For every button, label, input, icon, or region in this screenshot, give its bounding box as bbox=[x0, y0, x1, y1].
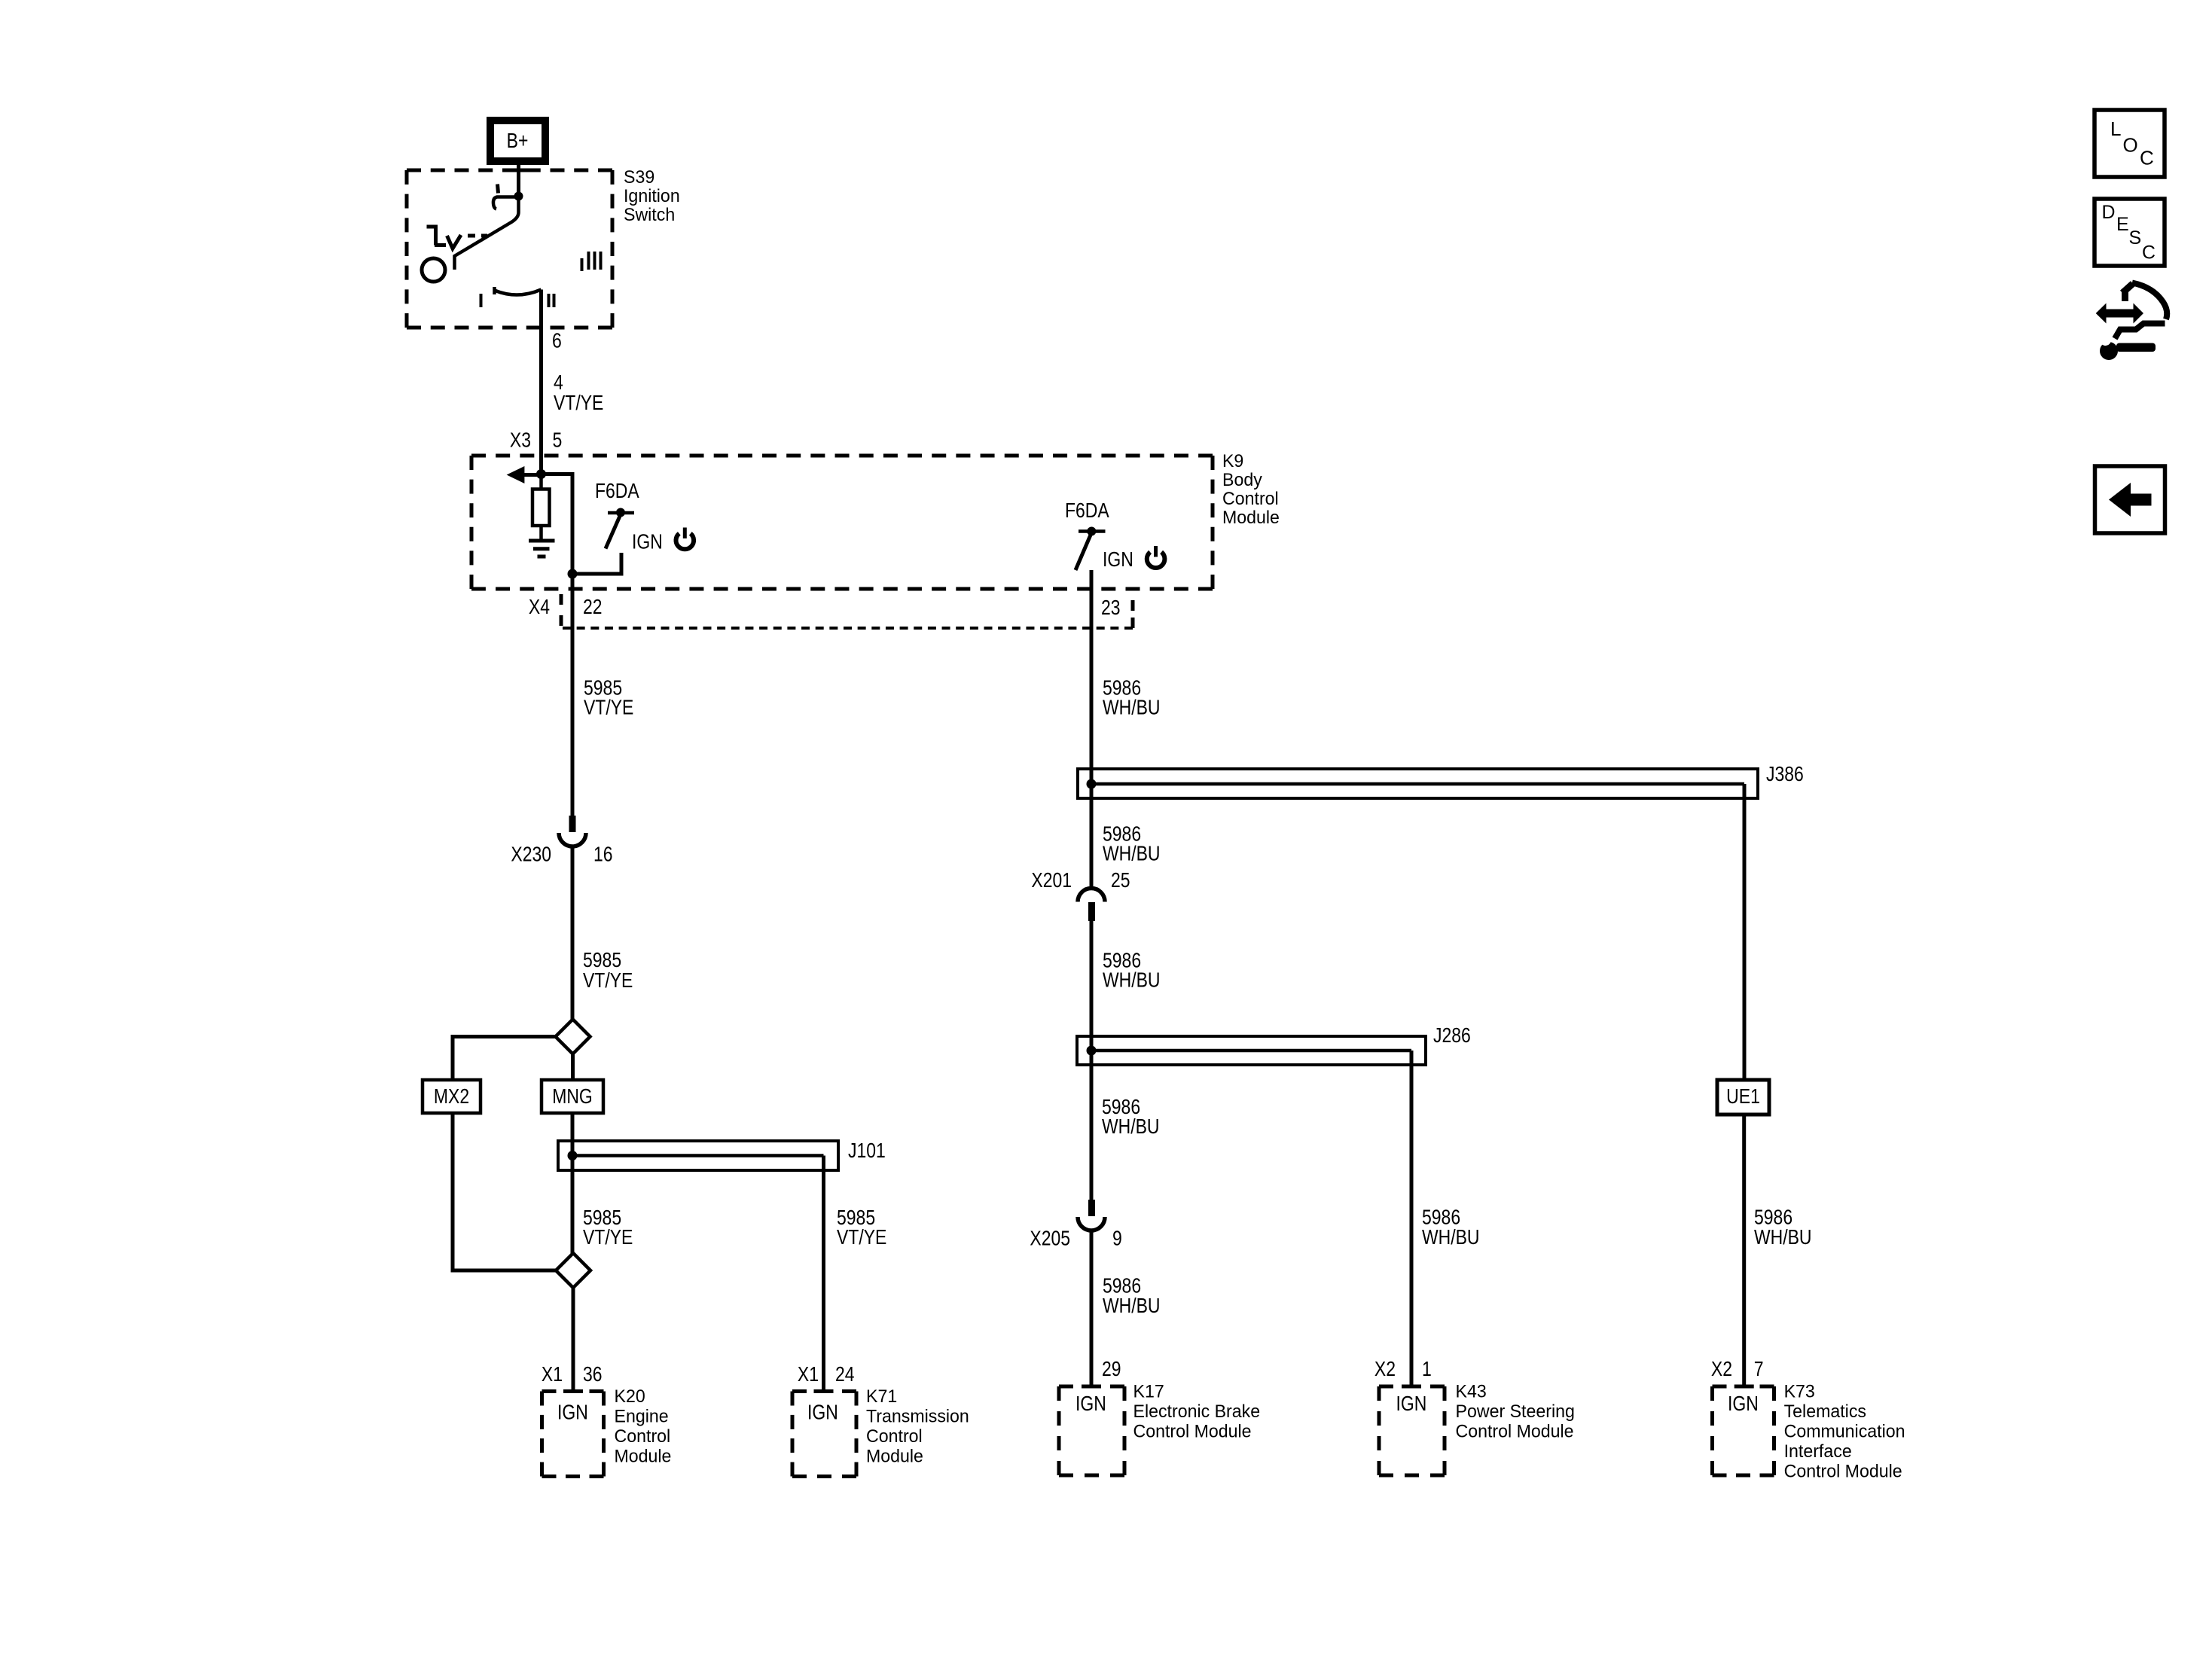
wire pin 23 down through splice J386 to connector X201 bbox=[1090, 570, 1094, 889]
svg-text:IGN: IGN bbox=[1396, 1392, 1427, 1415]
connector X201 labels bbox=[1031, 868, 1130, 892]
svg-text:36: 36 bbox=[583, 1362, 603, 1386]
wire lower diamond to module K20 bbox=[572, 1288, 575, 1392]
svg-text:MNG: MNG bbox=[552, 1084, 593, 1108]
svg-text:X1: X1 bbox=[798, 1362, 819, 1386]
circuit 5986 WH/BU label above K17 bbox=[1103, 1274, 1161, 1318]
svg-text:VT/YE: VT/YE bbox=[584, 696, 633, 719]
svg-text:X2: X2 bbox=[1374, 1357, 1396, 1380]
svg-text:29: 29 bbox=[1102, 1357, 1121, 1380]
svg-text:VT/YE: VT/YE bbox=[837, 1225, 886, 1249]
module K20 dashed box bbox=[542, 1392, 604, 1477]
lower splice diamond bbox=[556, 1253, 590, 1288]
resistor (BCM internal pull-down) bbox=[532, 474, 550, 541]
wire B+ to ignition switch contact bbox=[517, 161, 520, 197]
upper splice diamond bbox=[556, 1020, 590, 1054]
svg-text:7: 7 bbox=[1754, 1357, 1764, 1380]
svg-text:22: 22 bbox=[583, 595, 603, 618]
svg-text:X3: X3 bbox=[510, 428, 531, 452]
svg-text:K73: K73 bbox=[1784, 1382, 1815, 1402]
splice pack J386 bbox=[1078, 769, 1758, 798]
power icon switch 2 bbox=[1147, 546, 1165, 568]
icon LOC button bbox=[2095, 110, 2165, 177]
wire UE1 to module K73 bbox=[1742, 1115, 1746, 1386]
svg-text:Module: Module bbox=[866, 1447, 923, 1467]
wire pin 22 down to inline connector X230 bbox=[571, 574, 575, 817]
svg-text:K71: K71 bbox=[866, 1386, 897, 1407]
svg-text:MX2: MX2 bbox=[434, 1084, 469, 1108]
svg-text:X201: X201 bbox=[1031, 868, 1072, 892]
svg-text:VT/YE: VT/YE bbox=[554, 391, 603, 414]
inline connector X201 bbox=[1078, 889, 1105, 922]
svg-text:WH/BU: WH/BU bbox=[1103, 842, 1161, 865]
svg-text:Transmission: Transmission bbox=[866, 1407, 969, 1427]
svg-text:J101: J101 bbox=[848, 1139, 886, 1162]
svg-text:L: L bbox=[2110, 117, 2122, 140]
wire S39 pin 6 to BCM junction bbox=[539, 290, 543, 474]
circuit 5985 VT/YE label above splice bbox=[583, 948, 633, 992]
svg-text:WH/BU: WH/BU bbox=[1422, 1225, 1480, 1249]
svg-text:Communication: Communication bbox=[1784, 1422, 1905, 1442]
svg-text:Switch: Switch bbox=[624, 205, 675, 225]
svg-text:Control: Control bbox=[866, 1426, 923, 1447]
svg-text:Control: Control bbox=[615, 1426, 671, 1447]
icon DESC button bbox=[2095, 199, 2165, 266]
ignition switch S39 label bbox=[624, 167, 680, 225]
svg-text:IGN: IGN bbox=[557, 1401, 588, 1424]
splice pack J286 bbox=[1077, 1036, 1426, 1065]
svg-text:B+: B+ bbox=[507, 129, 529, 152]
connector X230 labels bbox=[511, 843, 612, 866]
connector pin labels at module (None 29) bbox=[1102, 1357, 1121, 1380]
icon schematic navigation (arrows and wrench) bbox=[2096, 283, 2167, 361]
circuit 5986 WH/BU label above J286 bbox=[1103, 949, 1161, 992]
module K73 dashed box bbox=[1713, 1386, 1774, 1475]
module K43 name label bbox=[1456, 1382, 1575, 1442]
svg-text:Body: Body bbox=[1222, 470, 1262, 490]
svg-text:E: E bbox=[2116, 214, 2129, 235]
ignition switch internal contacts and blade bbox=[422, 170, 601, 307]
svg-text:F6DA: F6DA bbox=[1065, 499, 1109, 522]
svg-text:1: 1 bbox=[1422, 1357, 1432, 1380]
svg-text:Interface: Interface bbox=[1784, 1441, 1852, 1462]
connector pin labels at module (X2 1) bbox=[1374, 1357, 1432, 1380]
svg-text:D: D bbox=[2102, 202, 2116, 223]
wire X201 to splice J286 and X205 bbox=[1090, 921, 1094, 1201]
svg-text:IGN: IGN bbox=[1075, 1392, 1106, 1415]
svg-text:24: 24 bbox=[835, 1362, 855, 1386]
svg-text:5: 5 bbox=[553, 428, 563, 452]
circuit 5986 WH/BU label on K73 branch bbox=[1754, 1206, 1812, 1249]
wire MNG through splice J101 to lower diamond bbox=[571, 1113, 575, 1255]
svg-text:X230: X230 bbox=[511, 843, 551, 866]
power feed symbol B+ bbox=[490, 120, 545, 161]
svg-text:UE1: UE1 bbox=[1726, 1084, 1760, 1108]
circuit 5985 VT/YE label on K71 branch bbox=[837, 1206, 886, 1249]
module K73 name label bbox=[1784, 1382, 1905, 1482]
svg-text:K17: K17 bbox=[1133, 1382, 1164, 1402]
svg-text:O: O bbox=[2123, 134, 2138, 157]
svg-text:Control: Control bbox=[1222, 489, 1279, 509]
wire X205 to module K17 bbox=[1090, 1231, 1094, 1386]
circuit 5985 VT/YE label below X4 bbox=[584, 676, 633, 719]
wire MX2 to lower joint bbox=[453, 1113, 556, 1270]
svg-text:Control Module: Control Module bbox=[1133, 1422, 1252, 1442]
svg-text:16: 16 bbox=[593, 843, 613, 866]
ignition switch S39 dashed box bbox=[407, 170, 612, 328]
svg-text:C: C bbox=[2140, 147, 2154, 169]
module K71 name label bbox=[866, 1386, 969, 1467]
svg-text:Ignition: Ignition bbox=[624, 186, 680, 206]
svg-text:S: S bbox=[2129, 227, 2142, 249]
connector pin labels at module (X1 24) bbox=[798, 1362, 855, 1386]
svg-text:VT/YE: VT/YE bbox=[583, 1225, 633, 1249]
body control module K9 label bbox=[1222, 451, 1280, 528]
wire X230 to upper splice diamond bbox=[571, 846, 575, 1020]
circuit 5986 WH/BU label above X201 bbox=[1103, 822, 1161, 865]
fuse F6DA ignition switch 1 (BCM internal) bbox=[606, 508, 634, 549]
wire splice J286 to module K43 bbox=[1410, 1051, 1414, 1386]
svg-text:X205: X205 bbox=[1030, 1227, 1070, 1250]
svg-text:K43: K43 bbox=[1456, 1382, 1487, 1402]
svg-text:S39: S39 bbox=[624, 167, 654, 188]
svg-text:WH/BU: WH/BU bbox=[1103, 1294, 1161, 1317]
svg-text:25: 25 bbox=[1111, 868, 1130, 892]
ground symbol (BCM internal) bbox=[529, 541, 555, 557]
circuit 5986 WH/BU label above X205 bbox=[1102, 1095, 1160, 1138]
connector X205 labels bbox=[1030, 1227, 1121, 1250]
svg-text:Control Module: Control Module bbox=[1784, 1462, 1902, 1482]
wire splice J386 to connector UE1 bbox=[1743, 784, 1747, 1080]
svg-text:Power Steering: Power Steering bbox=[1456, 1401, 1575, 1422]
svg-text:Control Module: Control Module bbox=[1456, 1422, 1574, 1442]
svg-text:K20: K20 bbox=[615, 1386, 645, 1407]
svg-text:IGN: IGN bbox=[632, 530, 663, 554]
connector X3 pin 5 labels bbox=[510, 428, 562, 452]
splice sleeve MX2 box bbox=[423, 1080, 481, 1113]
fuse F6DA ignition switch 2 (BCM internal) bbox=[1075, 527, 1106, 571]
svg-text:Module: Module bbox=[615, 1447, 672, 1467]
svg-text:6: 6 bbox=[552, 329, 562, 352]
svg-text:J386: J386 bbox=[1766, 762, 1804, 785]
svg-text:IGN: IGN bbox=[1103, 547, 1133, 571]
svg-text:Telematics: Telematics bbox=[1784, 1401, 1866, 1422]
svg-text:23: 23 bbox=[1101, 596, 1121, 619]
circuit 4 VT/YE label bbox=[554, 371, 603, 414]
svg-text:WH/BU: WH/BU bbox=[1103, 968, 1161, 992]
svg-text:F6DA: F6DA bbox=[595, 479, 639, 502]
svg-text:WH/BU: WH/BU bbox=[1754, 1225, 1812, 1249]
icon back arrow button bbox=[2095, 466, 2165, 533]
module K43 dashed box bbox=[1379, 1386, 1445, 1475]
svg-text:Engine: Engine bbox=[615, 1407, 669, 1427]
connector pin labels at module (X2 7) bbox=[1711, 1357, 1764, 1380]
circuit 5985 VT/YE label above lower diamond bbox=[583, 1206, 633, 1249]
inline connector X205 bbox=[1078, 1200, 1105, 1231]
splice sleeve MNG box bbox=[542, 1080, 603, 1113]
svg-text:IGN: IGN bbox=[1728, 1392, 1759, 1415]
body control module K9 dashed box bbox=[471, 456, 1213, 589]
inline connector X230 bbox=[559, 816, 586, 846]
connector X4 pin labels bbox=[529, 595, 1121, 619]
svg-text:J286: J286 bbox=[1433, 1023, 1471, 1047]
connector UE1 box bbox=[1717, 1080, 1769, 1115]
svg-text:IGN: IGN bbox=[807, 1401, 838, 1424]
svg-text:9: 9 bbox=[1112, 1227, 1122, 1250]
connector pin labels at module (X1 36) bbox=[542, 1362, 603, 1386]
wire splice J101 to module K71 bbox=[822, 1156, 825, 1392]
svg-text:Electronic Brake: Electronic Brake bbox=[1133, 1401, 1261, 1422]
internal node arrow and junction dot bbox=[507, 466, 546, 483]
wire upper diamond to MNG bbox=[571, 1054, 575, 1081]
circuit 5986 WH/BU label on K43 branch bbox=[1422, 1206, 1480, 1249]
svg-text:VT/YE: VT/YE bbox=[583, 968, 633, 992]
svg-text:WH/BU: WH/BU bbox=[1103, 696, 1161, 719]
splice pack J101 bbox=[558, 1141, 838, 1170]
svg-text:X4: X4 bbox=[529, 595, 550, 618]
power icon switch 1 bbox=[676, 528, 694, 550]
module K17 dashed box bbox=[1059, 1386, 1124, 1475]
svg-text:C: C bbox=[2142, 242, 2156, 264]
svg-text:Module: Module bbox=[1222, 508, 1280, 528]
wire junction to fuse switch F6DA output pin 22 bbox=[542, 474, 622, 579]
circuit 5986 WH/BU label below pin 23 bbox=[1103, 676, 1161, 719]
svg-text:X1: X1 bbox=[542, 1362, 563, 1386]
svg-text:X2: X2 bbox=[1711, 1357, 1732, 1380]
svg-text:K9: K9 bbox=[1222, 451, 1243, 471]
connector X4 row bbox=[561, 594, 1133, 628]
module K17 name label bbox=[1133, 1382, 1261, 1442]
branch wire upper diamond to MX2 bbox=[453, 1037, 556, 1081]
module K20 name label bbox=[615, 1386, 672, 1467]
svg-text:WH/BU: WH/BU bbox=[1102, 1115, 1160, 1138]
module K71 dashed box bbox=[792, 1392, 856, 1477]
